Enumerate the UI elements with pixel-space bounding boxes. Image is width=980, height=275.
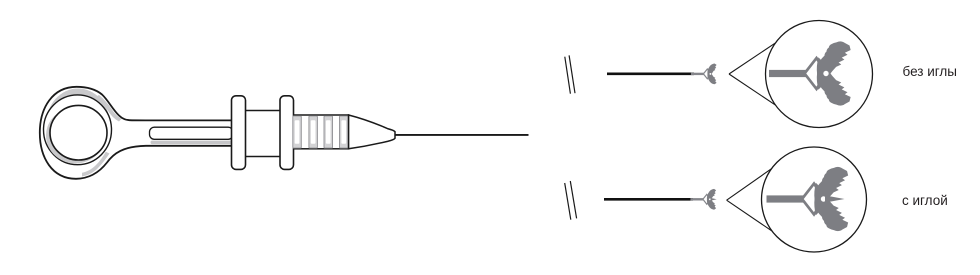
ring shading (outer gray crescent) [47,89,110,158]
callout lines bottom [727,168,773,200]
shaft bottom [604,198,693,201]
neck top shading wedge [96,95,122,122]
rib 1 [293,116,302,148]
neck bottom shading wedge [82,152,110,177]
shaft top [607,73,694,76]
magnifier circle bottom [762,147,867,252]
ring hole [50,105,107,160]
spool wide body [240,111,288,157]
right body (ribbed section base) [290,115,349,149]
ring mid ellipse [44,95,112,165]
nose cone [349,115,395,149]
svg-text:с иглой: с иглой [902,193,948,208]
rib 4 [340,116,349,148]
magnified mechanism top [769,40,851,108]
flange 1 [232,96,246,170]
catheter wire [395,134,529,136]
ring inner-wall gray crescent [46,108,105,164]
flange 2 [280,96,294,170]
tiny tip bottom [690,189,716,210]
rib 2 [309,116,318,148]
magnifier circle top [766,21,873,128]
break mark top [565,57,571,94]
magnified mechanism bottom [767,165,849,233]
break mark bottom [565,183,571,220]
slot in handle bar [150,127,234,139]
rib 3 [324,116,333,148]
slot gray stripe [151,141,234,145]
callout lines top [729,42,776,74]
handle outer silhouette (ring + neck + bar) [40,87,233,179]
tiny tip top [691,64,717,85]
svg-text:без иглы: без иглы [903,64,957,79]
